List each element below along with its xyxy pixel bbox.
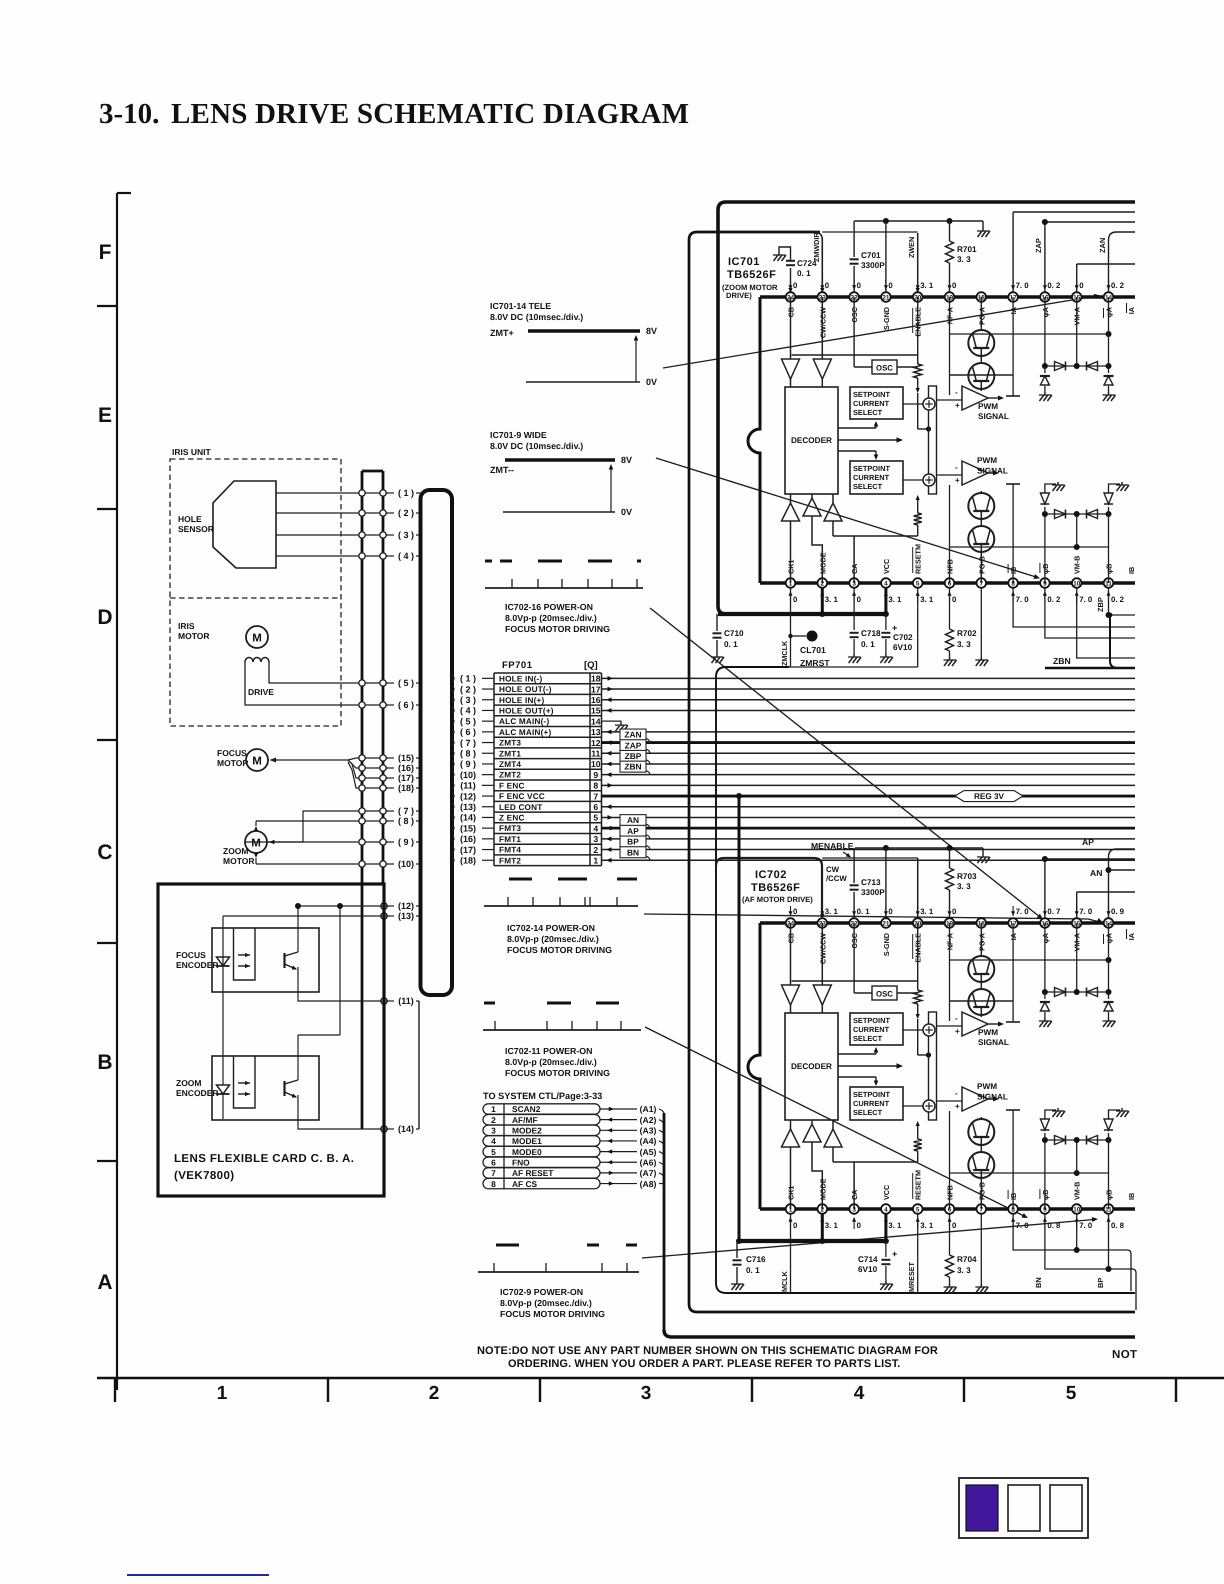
svg-text:ZWEN: ZWEN xyxy=(907,237,916,258)
wire encoder connections xyxy=(223,903,388,1129)
svg-text:REG 3V: REG 3V xyxy=(974,792,1005,801)
svg-text:(A1): (A1) xyxy=(640,1104,657,1114)
svg-text:HOLE OUT(+): HOLE OUT(+) xyxy=(499,706,554,715)
wire BN/BP net (IC702 pins 9,11) xyxy=(1034,1214,1136,1310)
wire AN feed (IC702 pin 14) xyxy=(1090,867,1135,878)
svg-text:( 1 ): ( 1 ) xyxy=(460,674,476,684)
svg-text:(AF MOTOR DRIVE): (AF MOTOR DRIVE) xyxy=(742,895,813,904)
IC701 input buffer triangles xyxy=(782,297,832,387)
svg-text:MENABLE: MENABLE xyxy=(811,841,854,851)
svg-text:SELECT: SELECT xyxy=(853,482,883,491)
IC702 input buffer triangles xyxy=(782,923,832,1013)
IC701 pin 20 (ENABLE) xyxy=(913,280,934,337)
svg-text:PWM: PWM xyxy=(977,456,997,465)
IC701 feedback column xyxy=(949,297,951,583)
IC702 feedback column xyxy=(949,923,951,1209)
wire hole sensor outputs xyxy=(276,493,388,556)
svg-text:( 9 ): ( 9 ) xyxy=(398,837,414,847)
svg-text:FP701: FP701 xyxy=(502,660,533,671)
svg-text:8: 8 xyxy=(593,781,598,791)
pointer line to IC701 pin 14 xyxy=(663,294,1100,368)
wire zoom motor leads xyxy=(245,811,388,864)
wire IC702 VCC bus xyxy=(736,796,889,1244)
svg-text:(A5): (A5) xyxy=(640,1147,657,1157)
IC702 output transistors A xyxy=(950,923,1014,1017)
svg-text:ZAN: ZAN xyxy=(624,730,641,740)
svg-text:7. 0: 7. 0 xyxy=(1016,1221,1030,1230)
net label ZBN (ZMT2) xyxy=(602,761,1136,777)
svg-text:Z ENC: Z ENC xyxy=(499,813,525,822)
svg-text:VM-B: VM-B xyxy=(1073,556,1082,574)
svg-text:(14): (14) xyxy=(460,813,476,823)
svg-text:AN: AN xyxy=(627,815,639,825)
ground (C702) xyxy=(880,654,893,663)
IC702 decoder arrows xyxy=(839,1047,903,1086)
svg-text:(16): (16) xyxy=(398,763,414,773)
svg-text:0: 0 xyxy=(857,1221,862,1230)
svg-text:(11): (11) xyxy=(398,996,414,1006)
net label ZAN (ZMT3) xyxy=(602,729,1136,745)
svg-text:0. 1: 0. 1 xyxy=(857,907,871,916)
svg-text:PWM: PWM xyxy=(978,1028,998,1037)
svg-text:14: 14 xyxy=(591,716,601,726)
IC702 PWM comparator B xyxy=(937,1082,1008,1111)
svg-text:3-10.: 3-10. xyxy=(99,98,159,130)
capacitor C713 xyxy=(850,848,886,918)
ground (R702) xyxy=(944,657,957,666)
svg-text:0: 0 xyxy=(952,907,957,916)
IC702 diode pair B xyxy=(1055,1136,1098,1145)
IC702 pin 23 (CW/CCW) xyxy=(818,906,839,964)
svg-text:0: 0 xyxy=(825,281,830,290)
svg-text:6: 6 xyxy=(491,1157,496,1167)
IC701 summing junction 2 xyxy=(903,474,935,486)
wire VM-A feed (IC702 pin 15) xyxy=(1077,892,1135,918)
svg-text:0: 0 xyxy=(952,281,957,290)
IC701 clamp zener A1 xyxy=(1040,366,1050,392)
svg-text:7. 0: 7. 0 xyxy=(1079,907,1093,916)
IC701 clamp zener A2 xyxy=(1104,366,1114,392)
ground (C710) xyxy=(711,654,724,663)
svg-text:3. 1: 3. 1 xyxy=(888,595,902,604)
svg-text:0: 0 xyxy=(888,281,893,290)
svg-text:+: + xyxy=(955,1102,960,1111)
page title xyxy=(99,98,689,130)
wire MRESET (pin5) xyxy=(907,1214,918,1293)
wire HOLE IN(-) net xyxy=(602,676,1136,681)
lens FPC pin markers (1)-(18) left side xyxy=(359,488,421,1134)
pointer line to IC702 pin 16 xyxy=(650,608,1043,920)
svg-text:SIGNAL: SIGNAL xyxy=(978,1038,1009,1047)
svg-text:8.0V DC (10msec./div.): 8.0V DC (10msec./div.) xyxy=(490,441,583,451)
svg-text:0: 0 xyxy=(793,1221,798,1230)
svg-text:ZAP: ZAP xyxy=(1034,238,1043,253)
svg-text:LENS DRIVE SCHEMATIC DIAGRAM: LENS DRIVE SCHEMATIC DIAGRAM xyxy=(171,98,689,130)
svg-text:(15): (15) xyxy=(398,753,414,763)
svg-text:3300P: 3300P xyxy=(861,888,885,897)
svg-text:0. 1: 0. 1 xyxy=(861,640,875,649)
capacitor C701 xyxy=(850,221,886,292)
wire F ENC net xyxy=(602,783,1136,788)
svg-text:0. 8: 0. 8 xyxy=(1111,1221,1125,1230)
svg-text:(A7): (A7) xyxy=(640,1168,657,1178)
IC701 pin 4 (VCC) xyxy=(881,559,902,604)
IC701 internal resistor xyxy=(914,297,931,536)
IC702 output transistors B xyxy=(968,1117,994,1209)
svg-text:ZOOM: ZOOM xyxy=(223,846,249,856)
svg-text:FOCUS MOTOR DRIVING: FOCUS MOTOR DRIVING xyxy=(500,1309,605,1319)
IC701 output driver triangles xyxy=(782,494,918,583)
svg-text:CW: CW xyxy=(826,865,840,874)
svg-text:DRIVE: DRIVE xyxy=(248,687,274,697)
svg-text:15: 15 xyxy=(591,706,601,716)
LENS FLEXIBLE CARD C.B.A. outline xyxy=(158,884,384,1196)
IC701 output transistors A xyxy=(950,297,1014,391)
svg-text:ZMT4: ZMT4 xyxy=(499,760,521,769)
svg-text:LENS FLEXIBLE CARD C. B. A.: LENS FLEXIBLE CARD C. B. A. xyxy=(174,1153,354,1165)
svg-text:(10): (10) xyxy=(398,859,414,869)
ground (C724) xyxy=(773,252,786,261)
svg-text:+: + xyxy=(955,401,960,410)
svg-text:0: 0 xyxy=(888,907,893,916)
IC701 pin 22 (OSC) xyxy=(849,280,861,323)
FOCUS ENCODER (photo-interrupter) xyxy=(176,928,319,992)
pointer line to IC702 pin 9 xyxy=(645,1027,1028,1218)
svg-text:SCAN2: SCAN2 xyxy=(512,1104,541,1114)
svg-text:-: - xyxy=(955,463,958,472)
resistor R701 xyxy=(946,221,978,292)
svg-text:ZBN: ZBN xyxy=(1053,656,1071,666)
wire ZWEN (pin20) xyxy=(907,233,920,293)
svg-text:ALC MAIN(-): ALC MAIN(-) xyxy=(499,717,549,726)
svg-text:FOCUS: FOCUS xyxy=(176,950,206,960)
svg-text:0. 2: 0. 2 xyxy=(1111,595,1125,604)
svg-text:3. 3: 3. 3 xyxy=(957,640,971,649)
svg-text:(A2): (A2) xyxy=(640,1115,657,1125)
svg-text:(18): (18) xyxy=(398,783,414,793)
op-amp IC701 outline (TB6526F) xyxy=(748,297,1135,583)
IC701 PWM comparator B xyxy=(937,456,1008,485)
IC701 output transistors B xyxy=(968,491,994,583)
svg-text:NOT: NOT xyxy=(1112,1349,1137,1361)
wire IB net (IC701 pin 8) xyxy=(1013,588,1135,627)
svg-text:ZMT2: ZMT2 xyxy=(499,771,521,780)
svg-text:VCC: VCC xyxy=(882,559,891,574)
IC702 pin 21 (S-GND) xyxy=(881,906,893,956)
IC701 pin 18 (PG-A) xyxy=(977,292,987,325)
svg-text:7. 0: 7. 0 xyxy=(1016,281,1030,290)
svg-text:C713: C713 xyxy=(861,878,881,887)
wire ZAP feed (IC701 pin 16) xyxy=(1034,219,1135,292)
svg-text:ZAP: ZAP xyxy=(625,740,642,750)
svg-text:(15): (15) xyxy=(460,823,476,833)
svg-text:8.0Vp-p (20msec./div.): 8.0Vp-p (20msec./div.) xyxy=(500,1298,592,1308)
wire Z ENC net xyxy=(602,815,1136,820)
svg-text:R701: R701 xyxy=(957,245,977,254)
svg-text:0: 0 xyxy=(952,1221,957,1230)
svg-text:( 3 ): ( 3 ) xyxy=(398,530,414,540)
waveform IC702-9 POWER-ON xyxy=(478,1245,639,1319)
svg-text:(VEK7800): (VEK7800) xyxy=(174,1170,235,1182)
svg-text:C718: C718 xyxy=(861,629,881,638)
IC701 pin 8 (IB) xyxy=(1008,564,1029,604)
svg-text:IA: IA xyxy=(1127,933,1136,940)
svg-text:(A6): (A6) xyxy=(640,1157,657,1167)
svg-text:VM-B: VM-B xyxy=(1073,1182,1082,1200)
ZOOM ENCODER (photo-interrupter) xyxy=(176,1056,319,1120)
svg-text:( 4 ): ( 4 ) xyxy=(460,706,476,716)
svg-text:4: 4 xyxy=(491,1136,496,1146)
svg-text:PWM: PWM xyxy=(978,402,998,411)
wire inner return frame xyxy=(716,667,1135,1293)
svg-text:HOLE: HOLE xyxy=(178,514,202,524)
svg-text:0. 1: 0. 1 xyxy=(724,640,738,649)
svg-text:5: 5 xyxy=(916,580,920,587)
ground xyxy=(1116,1108,1129,1117)
wire PG-B column (IC702) xyxy=(980,1214,982,1284)
svg-text:IC702-16 POWER-ON: IC702-16 POWER-ON xyxy=(505,602,593,612)
svg-text:(A4): (A4) xyxy=(640,1136,657,1146)
svg-text:C702: C702 xyxy=(893,633,913,642)
svg-text:(18): (18) xyxy=(460,855,476,865)
ground (PG-B IC701) xyxy=(975,657,988,666)
svg-text:7. 0: 7. 0 xyxy=(1016,907,1030,916)
IC702 pin 19 (NF-A) xyxy=(945,906,957,950)
svg-text:OSC: OSC xyxy=(876,364,893,373)
svg-text:FOCUS: FOCUS xyxy=(217,748,247,758)
svg-text:BP: BP xyxy=(627,837,639,847)
svg-text:MOTOR: MOTOR xyxy=(223,856,254,866)
svg-text:(10): (10) xyxy=(460,770,476,780)
svg-text:ZMCLK: ZMCLK xyxy=(780,640,789,666)
svg-text:FMT1: FMT1 xyxy=(499,835,521,844)
svg-text:C: C xyxy=(97,841,112,864)
svg-text:(13): (13) xyxy=(398,911,414,921)
IC702 internal resistor xyxy=(914,923,931,1162)
iris motor M1 xyxy=(178,621,268,648)
IC702 edge labels xyxy=(1127,929,1137,1200)
svg-text:CURRENT: CURRENT xyxy=(853,473,890,482)
svg-text:( 7 ): ( 7 ) xyxy=(398,806,414,816)
wire ZMWDIR (pin23 to frame) xyxy=(812,232,918,293)
wire IB/VM-B net (IC702 pins 8,10) xyxy=(1013,1214,1131,1291)
svg-text:C710: C710 xyxy=(724,629,744,638)
IC701 decoder arrows xyxy=(839,421,903,460)
IC702 diode pair A xyxy=(1055,988,1098,997)
svg-text:(A8): (A8) xyxy=(640,1179,657,1189)
ground (R704) xyxy=(944,1284,957,1293)
IC701 pin 21 (S-GND) xyxy=(881,280,893,330)
svg-text:+: + xyxy=(955,1027,960,1036)
page indicator squares xyxy=(959,1478,1088,1538)
svg-text:CURRENT: CURRENT xyxy=(853,1025,890,1034)
svg-text:2: 2 xyxy=(429,1383,440,1404)
svg-text:+: + xyxy=(892,623,897,633)
svg-text:9: 9 xyxy=(593,770,598,780)
bottom grid ruler xyxy=(97,1378,1224,1404)
svg-text:HOLE OUT(-): HOLE OUT(-) xyxy=(499,685,552,694)
svg-text:TO SYSTEM CTL/Page:3-33: TO SYSTEM CTL/Page:3-33 xyxy=(483,1091,602,1101)
IC702 setpoint current select 2 xyxy=(850,1087,903,1120)
svg-text:-: - xyxy=(955,388,958,397)
svg-text:3: 3 xyxy=(641,1383,652,1404)
IC701 PWM comparator A xyxy=(937,386,1009,421)
IC702 summing junction 1 xyxy=(903,1024,935,1036)
ground (C718) xyxy=(848,654,861,663)
IC702 pin 8 (IB) xyxy=(1008,1190,1029,1230)
svg-text:6V10: 6V10 xyxy=(893,643,913,652)
IC702 pin 4 (VCC) xyxy=(881,1185,902,1230)
wire ZAN feed (IC701 pin 14) xyxy=(1098,232,1135,292)
svg-text:5: 5 xyxy=(1066,1383,1077,1404)
svg-text:ZMT1: ZMT1 xyxy=(499,749,521,758)
wire CW/CCW feed IC702 xyxy=(716,858,822,917)
svg-text:ZBP: ZBP xyxy=(1096,597,1105,612)
wire HOLE IN(+) net xyxy=(602,697,1136,702)
waveform IC702-11 POWER-ON xyxy=(483,1003,641,1078)
svg-text:ZAN: ZAN xyxy=(1098,238,1107,253)
svg-text:IC701-14 TELE: IC701-14 TELE xyxy=(490,301,551,311)
wire ZBP (IC701 pin 11) xyxy=(1096,588,1135,618)
IC701 pin 6 (NFB) xyxy=(945,559,957,604)
ground xyxy=(1103,392,1116,401)
svg-text:CURRENT: CURRENT xyxy=(853,1099,890,1108)
svg-text:5: 5 xyxy=(916,1206,920,1213)
svg-text:+: + xyxy=(955,476,960,485)
svg-text:BN: BN xyxy=(1034,1277,1043,1288)
svg-text:FMT4: FMT4 xyxy=(499,846,521,855)
svg-text:FMT3: FMT3 xyxy=(499,824,521,833)
svg-text:(11): (11) xyxy=(460,781,476,791)
svg-text:FOCUS MOTOR DRIVING: FOCUS MOTOR DRIVING xyxy=(505,624,610,634)
lens connector bus (to FP701) xyxy=(419,490,452,1129)
svg-text:0. 7: 0. 7 xyxy=(1047,907,1060,916)
svg-text:AN: AN xyxy=(1090,868,1102,878)
svg-text:0: 0 xyxy=(857,595,862,604)
net label ZAP (ZMT1) xyxy=(602,740,1136,756)
svg-text:SIGNAL: SIGNAL xyxy=(978,412,1009,421)
svg-text:21: 21 xyxy=(882,920,890,927)
svg-text:3300P: 3300P xyxy=(861,261,885,270)
svg-text:7. 0: 7. 0 xyxy=(1079,595,1093,604)
FPC jumper column A xyxy=(362,471,383,1129)
svg-text:0: 0 xyxy=(793,281,798,290)
wire HOLE OUT(-) net xyxy=(602,687,1136,692)
IC701 clamp zener B1 xyxy=(1040,484,1056,514)
svg-text:0: 0 xyxy=(793,907,798,916)
IC702 pin 20 (ENABLE) xyxy=(913,906,934,963)
ground (C714) xyxy=(880,1281,893,1290)
IC702 output driver triangles xyxy=(782,1120,918,1209)
svg-text:R703: R703 xyxy=(957,872,977,881)
svg-text:0. 2: 0. 2 xyxy=(1047,281,1061,290)
svg-text:SIGNAL: SIGNAL xyxy=(977,1093,1008,1102)
svg-text:HOLE IN(-): HOLE IN(-) xyxy=(499,674,542,683)
svg-text:F ENC VCC: F ENC VCC xyxy=(499,792,545,801)
hole sensor xyxy=(178,481,276,568)
svg-text:R704: R704 xyxy=(957,1255,977,1264)
wire VCC supply loop (top frame) xyxy=(718,202,1135,614)
IC702 pin 18 (PG-A) xyxy=(977,918,987,951)
pointer line to IC702 pin 11 xyxy=(642,1217,1098,1258)
svg-text:DRIVE): DRIVE) xyxy=(726,291,752,300)
connector FP701 table xyxy=(494,660,602,866)
zoom motor M3 xyxy=(223,831,267,866)
IC702 pin 15 (VM-A) xyxy=(1072,906,1093,951)
svg-text:FMT2: FMT2 xyxy=(499,856,521,865)
svg-text:(13): (13) xyxy=(460,802,476,812)
svg-text:8V: 8V xyxy=(621,455,632,465)
svg-text:D: D xyxy=(97,606,112,629)
IC701 summing junction 1 xyxy=(903,398,935,410)
svg-text:( 6 ): ( 6 ) xyxy=(398,700,414,710)
svg-text:SETPOINT: SETPOINT xyxy=(853,464,890,473)
TO SYSTEM CTL connector table xyxy=(483,1091,602,1189)
svg-text:CL701: CL701 xyxy=(800,645,826,655)
svg-text:CURRENT: CURRENT xyxy=(853,399,890,408)
svg-text:SETPOINT: SETPOINT xyxy=(853,1090,890,1099)
IC702 internal OSC block xyxy=(792,923,918,1000)
svg-text:0. 8: 0. 8 xyxy=(1047,1221,1061,1230)
resistor R704 xyxy=(946,1214,978,1284)
svg-text:0. 9: 0. 9 xyxy=(1111,907,1125,916)
svg-text:TB6526F: TB6526F xyxy=(751,882,800,894)
svg-text:S-GND: S-GND xyxy=(882,307,891,330)
wire MCLK (pin1) xyxy=(780,1214,791,1293)
IC701 output network B xyxy=(950,484,1112,583)
IC701 diode pair B xyxy=(1055,510,1098,519)
iris drive coil xyxy=(245,658,274,698)
IC702 pin 24 (CB) xyxy=(786,906,798,943)
wire iris drive xyxy=(245,662,388,705)
system ctl pins (A1)-(A8) xyxy=(600,1104,664,1189)
IC701 diode pair A xyxy=(1055,362,1098,371)
IC701 pin 14 (φA) xyxy=(1104,280,1125,318)
svg-text:R702: R702 xyxy=(957,629,977,638)
capacitor C724 xyxy=(779,247,817,293)
IC702 pin 9 (φB) xyxy=(1040,1189,1061,1230)
IC702 pin 11 (φB) xyxy=(1104,1190,1125,1230)
IC702 summing junction 2 xyxy=(903,1100,935,1112)
svg-text:0. 2: 0. 2 xyxy=(1047,595,1061,604)
svg-text:2: 2 xyxy=(593,845,598,855)
svg-text:IRIS UNIT: IRIS UNIT xyxy=(172,447,212,457)
IC701 pin 24 (CB) xyxy=(786,280,798,317)
IC702 pin 6 (NFB) xyxy=(945,1185,957,1230)
IC701 output network A xyxy=(950,297,1112,396)
svg-text:3. 1: 3. 1 xyxy=(825,1221,839,1230)
svg-text:0. 1: 0. 1 xyxy=(746,1266,760,1275)
svg-text:RESETM: RESETM xyxy=(914,544,923,574)
svg-text:AP: AP xyxy=(627,826,639,836)
svg-text:IC701-9 WIDE: IC701-9 WIDE xyxy=(490,430,547,440)
wire IC701 VCC bus xyxy=(718,588,889,617)
IC702 pin 22 (OSC) xyxy=(849,906,870,949)
ground xyxy=(1039,392,1052,401)
IC702 pin 1 (CK1) xyxy=(786,1186,798,1230)
svg-text:10: 10 xyxy=(1073,1206,1081,1213)
svg-text:( 9 ): ( 9 ) xyxy=(460,759,476,769)
svg-text:ENCODER: ENCODER xyxy=(176,1088,219,1098)
capacitor C702 (electrolytic) xyxy=(881,614,913,654)
svg-text:SIGNAL: SIGNAL xyxy=(977,467,1008,476)
svg-text:0: 0 xyxy=(952,595,957,604)
svg-text:C714: C714 xyxy=(858,1255,878,1264)
svg-text:ALC MAIN(+): ALC MAIN(+) xyxy=(499,728,552,737)
svg-text:MOTOR: MOTOR xyxy=(178,631,209,641)
svg-text:7. 0: 7. 0 xyxy=(1016,595,1030,604)
svg-text:ZMT+: ZMT+ xyxy=(490,328,514,338)
